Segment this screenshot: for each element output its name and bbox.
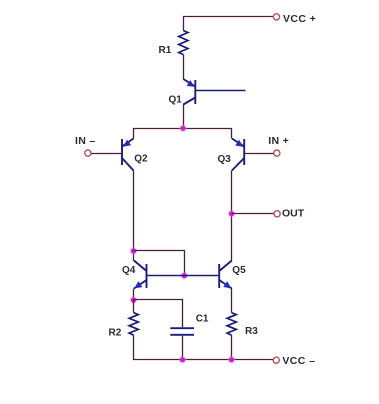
svg-text:R3: R3 (245, 326, 258, 337)
wire R2 top (133, 300, 135, 313)
wire Q4 emitter down (133, 289, 135, 301)
wire R3 bottom (231, 335, 233, 360)
svg-text:Q2: Q2 (134, 154, 148, 165)
svg-text:VCC –: VCC – (282, 355, 315, 367)
terminal VCC+ (273, 14, 279, 20)
wire diff-pair emitter rail (134, 129, 232, 139)
svg-text:Q3: Q3 (218, 154, 232, 165)
wire IN+ to Q3 base (245, 153, 274, 155)
transistor Q4 (134, 261, 218, 289)
resistor R2 (129, 313, 138, 336)
wire OUT (232, 213, 274, 215)
arrow Q1 emitter (PNP) (187, 80, 195, 87)
svg-text:Q5: Q5 (232, 265, 246, 276)
svg-text:OUT: OUT (282, 208, 305, 220)
wire Q4 collector-base tie loop (134, 251, 185, 276)
svg-text:R2: R2 (109, 327, 122, 338)
junction OUT node (228, 210, 236, 218)
wire Q1 collector to diff-pair rail (183, 105, 185, 129)
wire Q5 emitter to R3 (231, 289, 233, 313)
transistor Q5 (219, 261, 232, 289)
svg-text:C1: C1 (196, 313, 209, 324)
wire VCC+ top rail (184, 17, 274, 31)
svg-text:Q4: Q4 (122, 265, 136, 276)
svg-text:R1: R1 (159, 45, 172, 56)
svg-text:IN +: IN + (268, 135, 289, 147)
terminal OUT (274, 211, 280, 217)
junction Q4/Q5 base node (180, 272, 188, 280)
arrow Q5 emitter (NPN) (223, 281, 231, 288)
resistor R3 (227, 313, 236, 336)
terminal IN+ (274, 150, 280, 156)
wire R2 bottom (133, 335, 135, 360)
wire VCC- bottom rail (134, 359, 274, 361)
junction rail center (179, 124, 187, 132)
transistor Q3 (232, 139, 244, 171)
capacitor C1 (170, 328, 194, 335)
transistor Q2 (122, 139, 134, 171)
arrow Q4 emitter (NPN) (134, 281, 142, 288)
junction R3 bottom (228, 356, 236, 364)
wire C1 bottom (182, 336, 184, 360)
terminal VCC- (273, 357, 279, 363)
svg-text:IN –: IN – (75, 135, 95, 147)
svg-text:VCC +: VCC + (283, 13, 316, 25)
arrow Q3 emitter (PNP) (235, 140, 243, 147)
arrow Q2 emitter (PNP) (123, 140, 131, 147)
resistor R1 (179, 31, 188, 55)
junction Q4 emitter / C1 top node (130, 296, 138, 304)
wire node to C1 (134, 300, 183, 328)
wire R1 to Q1 emitter (183, 55, 185, 80)
svg-text:Q1: Q1 (169, 94, 183, 105)
wire Q3 collector down to Q5 collector (231, 171, 233, 261)
wire IN- to Q2 base (91, 153, 121, 155)
junction C1 bottom (179, 356, 187, 364)
wire Q2 collector down to Q4 collector (133, 171, 135, 261)
terminal IN- (85, 150, 91, 156)
transistor Q1 (183, 79, 245, 105)
junction Q4 collector (130, 247, 138, 255)
